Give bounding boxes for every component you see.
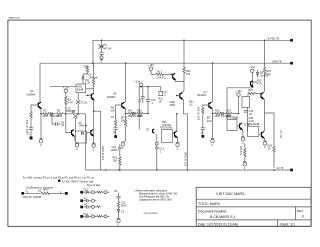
svg-text:+ 15V: + 15V <box>249 66 256 69</box>
svg-text:100 W OHM: 100 W OHM <box>185 152 188 166</box>
wire <box>24 192 41 194</box>
resistor R1 base <box>30 112 32 119</box>
capacitor col right <box>155 142 158 145</box>
svg-text:For 1KB, connect R2 to L3 and: For 1KB, connect R2 to L3 and R3 to P5, … <box>23 177 95 180</box>
connector pad J1 <box>30 137 33 140</box>
transistor Q6 <box>174 131 176 137</box>
resistor R30 <box>97 191 102 193</box>
transistor Q10 <box>261 131 263 138</box>
svg-text:3 BIT DAC MARS.: 3 BIT DAC MARS. <box>216 192 246 196</box>
svg-text:1N4002: 1N4002 <box>260 75 269 78</box>
transistor Q8 <box>261 92 263 98</box>
ground <box>117 218 120 220</box>
connector pad J2 <box>114 135 117 138</box>
connector pad row2 <box>80 199 83 202</box>
resistor on +5 feed <box>263 40 265 91</box>
transistor Q11 <box>251 81 253 87</box>
text cluster below <box>244 110 248 112</box>
diode D14 <box>117 209 119 211</box>
ground <box>122 141 126 143</box>
svg-text:2.2K: 2.2K <box>85 82 90 85</box>
wire signal row <box>41 113 43 115</box>
resistor column under K5 <box>244 144 246 149</box>
diode D12 <box>86 191 88 194</box>
transistor Q2b <box>91 130 93 136</box>
connector pad TB +5V <box>290 39 293 42</box>
diode D9 inside K1 <box>81 132 83 135</box>
svg-text:4.7K: 4.7K <box>68 101 73 104</box>
inductor L1 <box>99 44 105 49</box>
svg-text:AC: AC <box>84 197 88 200</box>
svg-text:REV:: REV: <box>297 209 304 213</box>
connector pad row1 <box>80 191 83 194</box>
svg-text:R17: R17 <box>157 71 162 74</box>
relay box K2 <box>162 130 173 143</box>
transistor Q5 <box>180 93 183 100</box>
svg-text:NTE R14B: NTE R14B <box>227 116 239 119</box>
wire to bottom rail <box>94 111 101 170</box>
svg-text:10K: 10K <box>186 73 191 76</box>
svg-text:TITLE: MARX: TITLE: MARX <box>198 202 221 206</box>
connector pad T1 <box>21 192 24 195</box>
svg-text:+5 VDC TB: +5 VDC TB <box>267 37 280 40</box>
wire box3a to box3c <box>247 108 249 132</box>
+5V power rail <box>40 37 293 171</box>
ground <box>75 142 78 144</box>
resistor R22 <box>119 157 121 167</box>
svg-text:700K: 700K <box>137 115 143 118</box>
diode D2 column <box>82 79 84 84</box>
capacitor C5 <box>142 87 144 97</box>
svg-text:.01: .01 <box>61 124 65 127</box>
svg-text:NTE R14B: NTE R14B <box>160 126 172 129</box>
resistor R4 <box>92 63 94 92</box>
ground <box>264 138 265 141</box>
svg-text:5000 PF 1N4999: 5000 PF 1N4999 <box>23 196 43 199</box>
svg-text:100 UF 50V: 100 UF 50V <box>197 106 200 120</box>
wire <box>50 192 65 194</box>
svg-text:100 W OHM: 100 W OHM <box>102 146 105 160</box>
ground <box>40 138 43 140</box>
svg-text:AC: AC <box>84 204 88 207</box>
svg-text:R15: R15 <box>248 89 253 92</box>
svg-text:MOV: MOV <box>121 205 127 208</box>
svg-text:10K: 10K <box>110 109 115 112</box>
wire Q6 emitter / ground <box>176 137 179 142</box>
transistor Q7 <box>209 102 212 108</box>
svg-text:+ 15V: + 15V <box>134 80 141 83</box>
svg-text:Capacitors are in UFD, 50V: Capacitors are in UFD, 50V <box>139 198 172 202</box>
lamp DS3 <box>91 191 94 194</box>
svg-text:GND TB: GND TB <box>272 60 282 63</box>
resistor R8 base <box>114 120 116 127</box>
transistor Q5a <box>173 73 175 79</box>
wire Q2 emitter <box>74 136 75 141</box>
resistor R16 on feed <box>183 40 185 90</box>
svg-text:3055: 3055 <box>170 104 176 107</box>
resistor R12 base <box>202 108 204 115</box>
svg-text:MOV: MOV <box>43 189 49 192</box>
svg-text:R10: R10 <box>137 109 142 112</box>
wire feed vertical <box>212 63 214 102</box>
wire Q5 emitter path <box>182 99 187 170</box>
resistor R3 pullup <box>65 96 67 105</box>
resistor R15 <box>248 92 255 94</box>
svg-text:2N3904: 2N3904 <box>107 96 116 99</box>
wire feed vertical <box>125 63 127 102</box>
wire down to bottom rail <box>85 114 87 170</box>
svg-text:TCA2: TCA2 <box>81 101 88 104</box>
capacitor C30 <box>118 193 120 197</box>
wire Q7 base <box>203 105 209 108</box>
wire bottom rail <box>86 169 291 171</box>
resistor R5 <box>57 113 63 115</box>
node junction <box>40 113 42 115</box>
svg-text:DAC: DAC <box>121 120 126 123</box>
svg-text:2N3904: 2N3904 <box>27 94 36 97</box>
connector pad row3 <box>80 206 83 209</box>
svg-text:330K: 330K <box>42 115 48 118</box>
transistor Q2 <box>72 129 74 136</box>
svg-text:Type of tape: Type of tape <box>87 184 101 187</box>
svg-text:1N4148: 1N4148 <box>79 125 88 128</box>
wire row continues <box>66 113 86 115</box>
connector pad J3 <box>202 135 205 138</box>
relay box K4 <box>227 120 237 131</box>
svg-text:47E 5W: 47E 5W <box>162 124 172 127</box>
capacitor C1 <box>99 52 103 54</box>
diode D3 <box>133 112 135 115</box>
svg-text:700K: 700K <box>57 115 63 118</box>
svg-text:G: G <box>26 189 28 192</box>
svg-text:100PF: 100PF <box>111 149 119 152</box>
node <box>65 113 67 115</box>
svg-text:MARS.SCH: MARS.SCH <box>9 16 21 19</box>
svg-text:100 UF 50V: 100 UF 50V <box>26 119 29 133</box>
resistor R6 <box>82 74 84 77</box>
wire Q3 emitter <box>93 100 95 144</box>
svg-text:xxx-xx-xxxxx: xxx-xx-xxxxx <box>144 212 159 215</box>
svg-text:NTE R14B: NTE R14B <box>247 123 259 126</box>
wire bridge <box>227 73 253 120</box>
crystal component <box>159 91 163 95</box>
wire bridge <box>139 87 161 130</box>
diode D1 <box>48 113 51 115</box>
relay box K1 upper <box>76 84 86 93</box>
svg-text:AC HI: AC HI <box>277 167 284 170</box>
transistor Q3 <box>91 93 93 100</box>
ground <box>242 129 243 136</box>
diode D5 <box>221 112 223 115</box>
svg-text:47 UH: 47 UH <box>104 47 111 50</box>
resistor R9 <box>128 112 134 114</box>
capacitor C16 <box>202 115 204 128</box>
svg-text:.01: .01 <box>249 113 253 116</box>
wire Q1 base <box>31 105 38 112</box>
capacitor col C24 <box>119 144 121 147</box>
wire <box>101 40 103 52</box>
svg-text:1K: 1K <box>159 101 162 104</box>
wire Q6 collector <box>176 114 178 131</box>
relay box K1 lower <box>76 131 87 143</box>
wire Q8 emitter path <box>263 99 274 146</box>
connector pad AC HI <box>290 169 293 172</box>
resistor R13 <box>215 112 221 114</box>
connector pad row4 <box>80 215 83 218</box>
svg-text:2N3904: 2N3904 <box>197 94 206 97</box>
capacitor C10 <box>147 87 149 100</box>
connector pad <box>58 180 60 182</box>
resistor R10 <box>137 112 143 114</box>
ground <box>92 142 95 144</box>
lamp DS1 <box>76 100 80 104</box>
svg-text:Date: 1/27/2013 01:13:44p: Date: 1/27/2013 01:13:44p <box>198 222 238 226</box>
capacitor C4 <box>52 114 56 124</box>
svg-text:Document Number:: Document Number: <box>198 210 227 214</box>
svg-text:ICL: ICL <box>114 190 119 193</box>
wire cluster line <box>50 86 76 88</box>
svg-text:Sheet: 1/1: Sheet: 1/1 <box>280 222 296 226</box>
wire Q4 base <box>116 105 122 120</box>
svg-text:R14B: R14B <box>77 89 84 92</box>
relay box K3 upper <box>242 97 250 108</box>
svg-text:AC LO: AC LO <box>280 130 283 138</box>
resistor R20 <box>273 146 275 168</box>
resistor R25 <box>117 202 119 210</box>
ground <box>211 138 214 140</box>
wire feed vertical <box>39 63 41 102</box>
wire mid rail <box>40 62 290 64</box>
svg-text:4.7K: 4.7K <box>257 82 262 85</box>
svg-text:330K: 330K <box>214 115 220 118</box>
title block <box>196 187 311 226</box>
varistor MOV <box>41 192 49 195</box>
capacitor C3 <box>115 126 117 129</box>
ground <box>100 56 103 59</box>
capacitor C2 <box>30 119 32 128</box>
svg-text:DAC: DAC <box>207 120 212 123</box>
svg-text:1.8K DC: 1.8K DC <box>156 77 166 80</box>
lamp DS2 <box>73 114 77 118</box>
resistor R17 <box>156 73 163 75</box>
transistor Q4 <box>122 102 125 108</box>
transistor Q1 <box>38 102 41 108</box>
svg-text:R13: R13 <box>215 110 220 113</box>
resistor R14 <box>226 112 232 114</box>
resistor R2 <box>43 113 49 115</box>
diode cluster <box>257 70 259 72</box>
svg-text:47E 5W: 47E 5W <box>240 145 243 155</box>
svg-text:10K: 10K <box>113 160 118 163</box>
wire K1 contacts <box>86 88 94 90</box>
svg-text:1K: 1K <box>189 103 192 106</box>
svg-text:B-CB-MARS-0-1: B-CB-MARS-0-1 <box>210 215 235 219</box>
connector pad GND <box>290 62 293 65</box>
connector pad T2 <box>65 192 68 195</box>
power entry filter <box>99 40 112 63</box>
wire signal row <box>126 113 129 115</box>
wire +5V rail <box>93 40 290 63</box>
wire signal row <box>213 113 216 115</box>
node junction <box>101 40 103 42</box>
wire to Q2 base <box>66 114 72 133</box>
transistor Q9 <box>240 123 242 129</box>
